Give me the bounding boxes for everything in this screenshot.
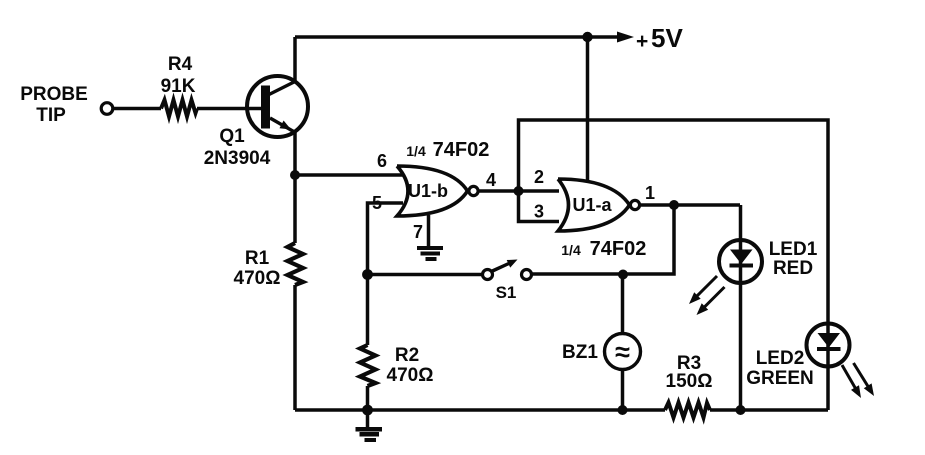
svg-text:R4: R4 [168,54,193,75]
svg-text:74F02: 74F02 [433,139,490,161]
svg-text:Q1: Q1 [219,126,245,147]
svg-text:2: 2 [534,167,544,187]
svg-text:RED: RED [773,258,813,279]
svg-text:4: 4 [486,170,496,190]
svg-text:R2: R2 [395,345,419,366]
svg-text:U1-b: U1-b [408,181,448,201]
svg-text:S1: S1 [496,283,517,302]
svg-text:6: 6 [377,151,387,171]
svg-text:3: 3 [534,202,544,222]
svg-text:91K: 91K [161,76,196,97]
svg-text:TIP: TIP [36,105,66,126]
svg-text:74F02: 74F02 [590,238,647,260]
svg-text:LED2: LED2 [756,348,805,369]
svg-text:5V: 5V [651,23,683,53]
svg-text:150Ω: 150Ω [666,371,713,392]
svg-text:2N3904: 2N3904 [204,148,271,169]
svg-text:1/4: 1/4 [561,242,581,258]
svg-text:≈: ≈ [615,337,630,367]
svg-text:1/4: 1/4 [406,143,426,159]
svg-text:+: + [636,30,648,53]
svg-text:PROBE: PROBE [20,84,88,105]
svg-text:7: 7 [413,222,423,242]
svg-text:U1-a: U1-a [572,195,612,215]
svg-text:5: 5 [372,193,382,213]
svg-text:1: 1 [645,183,655,203]
svg-text:BZ1: BZ1 [562,342,598,363]
svg-text:R1: R1 [245,248,270,269]
svg-text:LED1: LED1 [769,239,818,260]
svg-text:GREEN: GREEN [746,368,814,389]
svg-text:470Ω: 470Ω [387,365,434,386]
svg-text:470Ω: 470Ω [234,268,281,289]
